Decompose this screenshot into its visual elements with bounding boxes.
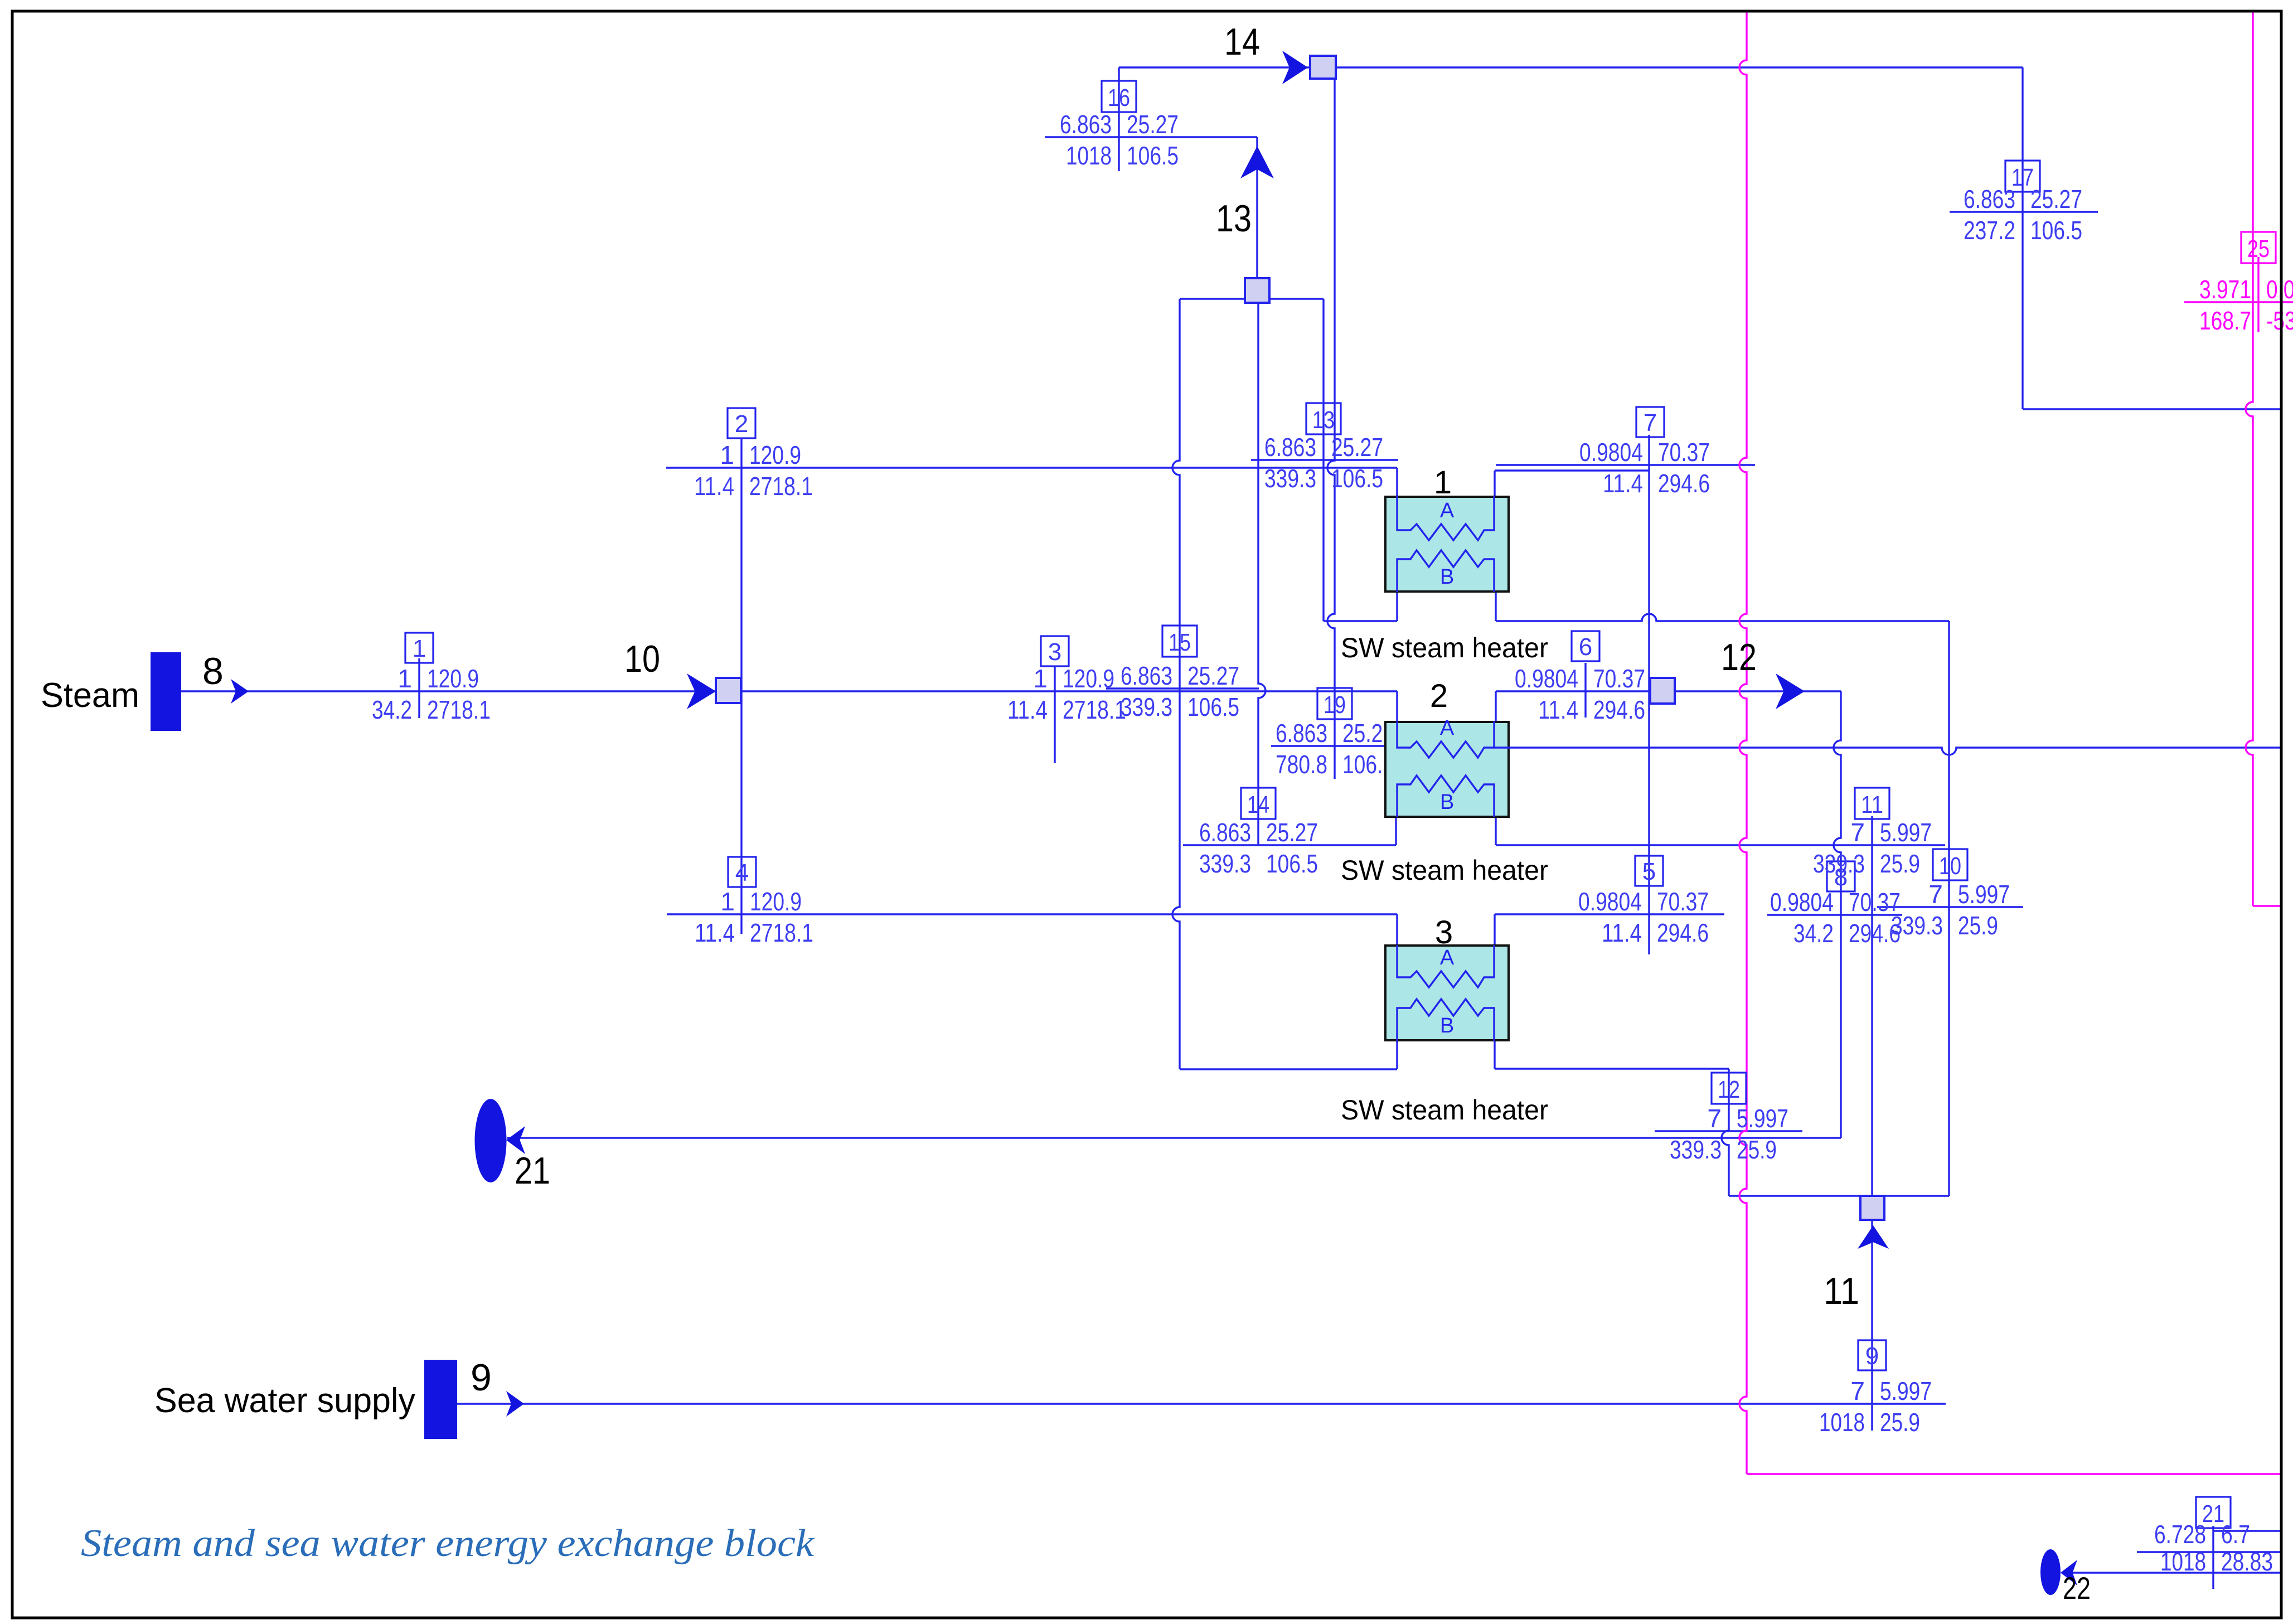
magenta block boundary right vertical with jump arcs [2246,11,2253,906]
wire mixer vertical riser (streams 2 and 4) [740,439,742,934]
stream table 17 (exit right) [2005,161,2040,192]
svg-text:25: 25 [2247,235,2270,263]
svg-text:106.5: 106.5 [1187,692,1239,721]
svg-text:5.997: 5.997 [1958,880,2010,909]
wire stream 3 horizontal (mixer to heater 2) with jump over stream 14 [741,690,1397,692]
svg-text:1: 1 [413,635,426,662]
magenta block boundary bottom horizontal [1747,1473,2280,1475]
stream table 4 (to heater 3) [728,857,756,887]
svg-text:0.9804: 0.9804 [1579,438,1643,467]
node: steam mixer 10 [716,678,741,703]
arrow stream 11 up into mixer [1858,1225,1889,1249]
svg-text:780.8: 780.8 [1276,750,1327,779]
wire heater 3 B-out down and right (stream 12) [1494,1038,1495,1069]
svg-text:1018: 1018 [1819,1408,1865,1437]
svg-text:12: 12 [1721,636,1757,678]
svg-text:168.7: 168.7 [2199,306,2251,335]
svg-text:5.997: 5.997 [1880,818,1932,847]
heat exchanger block 3 (SW steam heater 3) [1385,946,1509,1040]
node: mixer of stream 14 (top) [1310,56,1336,79]
svg-text:339.3: 339.3 [1199,849,1251,878]
svg-text:8: 8 [202,650,224,692]
rule of stream table 12 [1655,1130,1802,1132]
svg-text:25.27: 25.27 [1331,433,1383,462]
magenta stream 25 rule [2184,301,2293,303]
wire stream 4 horizontal to heater 3 [667,913,1397,915]
source block Sea water supply [424,1360,457,1439]
rule of stream table 17 [1950,211,2098,212]
divider of stream table 6 [1584,663,1586,718]
wire heater 2 B-out down and right [1495,816,1496,845]
svg-text:3: 3 [1048,638,1061,666]
svg-text:237.2: 237.2 [1964,216,2015,245]
svg-text:2718.1: 2718.1 [750,918,813,947]
wire stream 3 drop into heater 2 A-in [1396,691,1398,723]
svg-text:11.4: 11.4 [1538,695,1578,724]
svg-text:1: 1 [1033,664,1048,693]
svg-text:-53.: -53. [2266,306,2293,335]
svg-text:9: 9 [1865,1342,1879,1370]
heat exchanger block 1 (SW steam heater 1) [1385,497,1509,592]
svg-text:9: 9 [471,1356,492,1399]
rule of stream table 21 [2137,1551,2280,1553]
zigzag A of heater 2 [1397,721,1494,758]
arrow into sink 22 [2061,1560,2077,1586]
svg-text:106.5: 106.5 [1266,849,1318,878]
svg-text:7: 7 [1707,1104,1722,1133]
svg-text:3.971: 3.971 [2199,275,2251,304]
stream table 25 (magenta stream) [2241,232,2276,263]
wire stream 10 vertical (heater 1 B-out line down to bottom mixer) [1948,621,1950,1196]
wire stream 14 bottom horizontal and heater 2 B-in riser [1183,844,1396,846]
svg-text:11: 11 [1861,791,1883,818]
arrow stream 13 up [1240,146,1274,178]
arrow stream 12 [1776,673,1805,709]
node: mixer stream 6/7/5 [1650,678,1675,704]
arrow into sink 21 [506,1126,525,1154]
svg-text:6.728: 6.728 [2154,1520,2206,1549]
wire stream 14 vertical (splitter to heater 2 B) with jump over stream 3 [1258,303,1266,845]
wire stream 16 divider and stub up to line 14 [1118,67,1119,171]
svg-text:120.9: 120.9 [1063,664,1114,693]
divider of stream table 21 [2212,1526,2214,1589]
svg-text:11: 11 [1824,1270,1859,1312]
wire stream 12 output of mixer to elbow [1675,690,1841,692]
wire stream 9/11 vertical below bottom mixer [1871,1220,1873,1431]
source block Steam [151,652,181,731]
svg-text:21: 21 [515,1150,550,1192]
wire stream 8: Steam source to mixer [181,690,716,692]
rule of stream table 13 [1251,459,1398,460]
arrow stream 14 into node [1282,51,1308,84]
svg-text:339.3: 339.3 [1891,911,1943,940]
svg-text:Steam: Steam [41,676,139,715]
svg-text:6.863: 6.863 [1264,433,1316,462]
svg-text:1: 1 [1434,464,1452,501]
svg-text:SW steam heater: SW steam heater [1341,1094,1548,1126]
rule of stream table 8 [1767,914,1902,915]
svg-text:13: 13 [1216,197,1252,240]
magenta block boundary left vertical with jump arcs [1739,11,1747,1474]
svg-text:A: A [1440,499,1455,522]
svg-text:339.3: 339.3 [1813,849,1865,878]
svg-text:34.2: 34.2 [372,695,412,724]
svg-text:34.2: 34.2 [1793,919,1834,948]
svg-text:15: 15 [1169,629,1191,656]
svg-text:Sea water supply: Sea water supply [154,1381,415,1420]
wire stream 6 (heater 2 A-out up and right to mixer) [1495,691,1496,723]
stream table 10 (sw to mixer right) [1933,849,1967,880]
zigzag A of heater 3 [1397,945,1494,987]
svg-text:7: 7 [1850,1376,1865,1405]
svg-text:4: 4 [735,859,749,886]
wire stream 9: sea water supply horizontal [457,1403,1946,1404]
svg-text:11.4: 11.4 [1007,695,1048,724]
wire sink 21 long horizontal line [507,1137,1841,1138]
svg-text:11.4: 11.4 [1603,469,1643,498]
svg-text:14: 14 [1247,791,1269,818]
node: splitter of stream 13 [1245,278,1269,303]
sink ellipse 22 [2040,1549,2061,1595]
svg-text:5.997: 5.997 [1880,1376,1932,1405]
sink ellipse 21 [475,1099,507,1182]
divider of stream table 1 [418,658,420,718]
rule of stream table 10 [1877,906,2023,908]
wire splitter hat [1180,298,1324,299]
svg-text:70.37: 70.37 [1658,438,1710,467]
svg-text:2718.1: 2718.1 [1063,695,1126,724]
svg-text:339.3: 339.3 [1121,692,1172,721]
wire stream 12 bottom horizontal into bottom mixer [1729,1195,1949,1196]
svg-text:120.9: 120.9 [750,887,802,916]
stream table 8 (condensate out) [1827,861,1855,891]
svg-text:25.9: 25.9 [1737,1135,1777,1164]
wire stream 7: heater 1 A-out riser and horizontal [1494,471,1495,497]
stream table 6 (heater 2 A-out) [1572,631,1599,661]
rule of stream table 15 [1106,687,1259,689]
svg-text:120.9: 120.9 [427,664,479,693]
svg-text:339.3: 339.3 [1264,464,1316,493]
svg-text:25.27: 25.27 [2030,185,2082,214]
wire stream 14 top horizontal into node and onward to stream 17 [1119,66,1310,68]
svg-text:14: 14 [1224,21,1260,63]
svg-text:6.863: 6.863 [1060,110,1112,139]
stream table 14 (to heater 2 B) [1241,788,1276,819]
side exit of heater 2 [1494,746,1510,748]
wire stream 15 bottom horizontal and heater 3 B-in riser [1180,1068,1397,1070]
svg-text:294.6: 294.6 [1593,695,1645,724]
svg-text:7: 7 [1928,880,1943,909]
svg-text:6.863: 6.863 [1199,818,1251,847]
wire stream 19 vertical from node 14 with jumps [1327,79,1335,779]
svg-text:10: 10 [1939,852,1961,880]
wire stream 13/16 riser from splitter with left turn at top [1256,137,1258,303]
wire heater 1 B-out to right (to stream 10 drop) with bump over stream 7 [1495,590,1496,621]
svg-text:7: 7 [1850,818,1865,847]
svg-text:25.9: 25.9 [1880,1408,1920,1437]
stream table 5 (heater 3 A-out) [1635,856,1663,886]
stream table 19 (node 14 down) [1317,688,1352,719]
wire stream 12 vertical through table 12 with jump over sink line [1722,1069,1729,1196]
svg-text:2718.1: 2718.1 [427,695,491,724]
svg-text:11.4: 11.4 [695,918,735,947]
stream table 21 (bottom right) [2196,1497,2231,1528]
svg-text:28.83: 28.83 [2221,1547,2273,1576]
svg-text:25.27: 25.27 [1187,661,1239,690]
node: bottom sea-water mixer [1860,1196,1884,1220]
svg-text:2718.1: 2718.1 [749,472,813,501]
stream table 12 (heater 3 B-out) [1712,1073,1746,1104]
svg-text:1: 1 [720,887,735,916]
svg-text:106.5: 106.5 [2030,216,2082,245]
magenta boundary right stub to border [2253,905,2280,906]
stream table 9 (sea water) [1858,1340,1886,1370]
svg-text:2: 2 [735,410,748,438]
svg-text:1018: 1018 [2160,1547,2206,1576]
wire stream 13 leg (hat to heater 1 B) [1322,299,1324,621]
svg-text:0.9804: 0.9804 [1578,887,1642,916]
svg-text:25.9: 25.9 [1880,849,1920,878]
wire stream 8 vertical drop to sink 21 line, with jumps [1834,691,1841,1138]
svg-text:120.9: 120.9 [749,440,801,469]
svg-text:339.3: 339.3 [1670,1135,1722,1164]
svg-text:A: A [1440,716,1455,740]
wire stream 17 horizontal exit to right border [2023,408,2280,410]
sink 22 line from right border [2068,1572,2280,1573]
wire stream 17 vertical drop [2021,67,2023,409]
stream table 1 (steam feed) [405,633,433,663]
svg-text:25.27: 25.27 [1127,110,1179,139]
svg-text:3: 3 [1435,914,1453,951]
wire stream 7 vertical drop into mixer (with table 7 and 5 on it) [1648,435,1650,471]
svg-text:0.9804: 0.9804 [1515,664,1578,693]
svg-text:1: 1 [397,664,412,693]
stream table 11 (sw mixed up) [1855,788,1889,819]
stream table 16 (split riser) [1102,81,1136,112]
svg-text:25.9: 25.9 [1958,911,1998,940]
svg-text:6.863: 6.863 [1121,661,1172,690]
svg-text:294.6: 294.6 [1658,469,1710,498]
svg-text:SW steam heater: SW steam heater [1341,632,1548,663]
svg-text:5.997: 5.997 [1737,1104,1788,1133]
arrow stream 8 small [231,679,249,704]
wire stream 2 drop into heater 1 port A-in [1396,468,1398,497]
wire stream 15 long vertical (hat to heater 3 B) with jumps [1172,299,1180,1069]
svg-text:5: 5 [1642,858,1656,885]
svg-text:12: 12 [1718,1076,1740,1103]
wire stream 5 riser from heater 3 A-out [1494,914,1495,947]
svg-text:6.863: 6.863 [1276,719,1327,748]
svg-text:25.27: 25.27 [1266,818,1318,847]
svg-text:6.7: 6.7 [2221,1520,2250,1549]
svg-text:70.37: 70.37 [1593,664,1645,693]
svg-text:1: 1 [720,440,734,469]
heat exchanger block 2 (SW steam heater 2) [1385,722,1509,817]
svg-text:Steam and sea water energy exc: Steam and sea water energy exchange bloc… [81,1522,815,1565]
wire stream 5 horizontal from heater 3 [1495,913,1724,915]
svg-text:0.9804: 0.9804 [1770,888,1834,917]
wire stream 4 drop into heater 3 A-in [1396,914,1398,947]
wire heater 2 A side exit long line to right border with bump over stream 10 [1484,748,2280,755]
arrow stream 9 small [506,1391,524,1417]
svg-text:70.37: 70.37 [1657,887,1709,916]
stream table 3 (to heater 2) [1041,636,1069,666]
svg-text:11.4: 11.4 [694,472,734,501]
rule of stream table 7 [1496,464,1755,466]
zigzag B of heater 1 [1397,550,1494,592]
wire stream 2 horizontal to heater 1 [666,467,1397,468]
magenta stream 25 divider [2257,257,2259,332]
stream table 2 (to heater 1) [728,408,755,438]
stream table 7 (heater 1 A-out) [1636,407,1664,437]
svg-text:6: 6 [1579,633,1592,661]
wire stream 11 vertical (bottom mixer up to table 11) [1871,816,1873,1196]
svg-text:16: 16 [1108,84,1130,112]
svg-text:22: 22 [2063,1570,2091,1606]
zigzag B of heater 3 [1397,999,1494,1041]
svg-text:0.04: 0.04 [2266,275,2293,304]
divider of stream table 3 [1054,667,1055,763]
stream 21 line from right border [2213,1530,2280,1531]
stream table 15 (to heater 3 B) [1162,626,1197,657]
svg-text:B: B [1440,1014,1454,1038]
svg-text:B: B [1440,565,1454,589]
svg-text:10: 10 [624,638,660,680]
svg-text:106.5: 106.5 [1127,141,1179,170]
svg-text:B: B [1440,791,1454,814]
zigzag A of heater 1 [1397,496,1494,540]
svg-text:294.6: 294.6 [1657,918,1709,947]
svg-text:6.863: 6.863 [1964,185,2015,214]
rule of stream table 19 [1271,745,1385,746]
svg-text:106.5: 106.5 [1331,464,1383,493]
svg-text:2: 2 [1430,678,1448,714]
svg-text:11.4: 11.4 [1602,918,1642,947]
wire heater 1 B-in riser [1396,590,1398,621]
svg-text:1018: 1018 [1066,141,1112,170]
svg-text:13: 13 [1312,406,1335,434]
svg-text:7: 7 [1644,409,1657,437]
arrow into steam mixer [687,673,716,709]
svg-text:SW steam heater: SW steam heater [1341,855,1548,886]
zigzag B of heater 2 [1397,775,1494,817]
stream table 13 (to heater 1 B) [1306,403,1341,434]
svg-text:19: 19 [1324,691,1346,719]
